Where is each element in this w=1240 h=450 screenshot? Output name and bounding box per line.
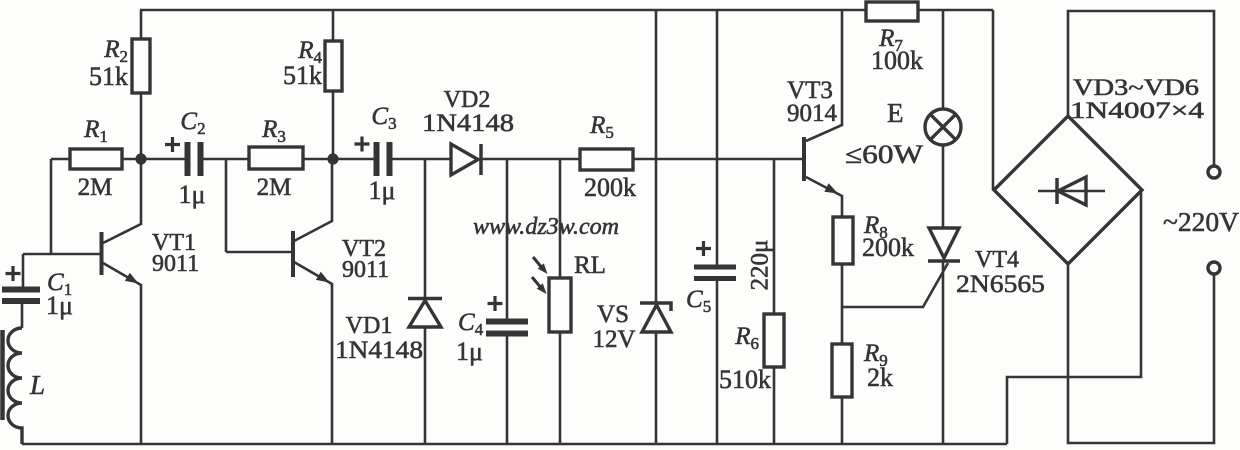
resistor R9 <box>832 340 893 397</box>
resistor R5 <box>580 112 636 202</box>
svg-text:9011: 9011 <box>152 251 199 277</box>
wire: VD1 branch <box>424 159 427 444</box>
svg-text:51k: 51k <box>89 62 128 91</box>
svg-text:C5: C5 <box>686 286 711 316</box>
capacitor C2 <box>165 108 206 209</box>
wire: AC1 loop (bridge top to terminal 1) <box>1068 11 1214 166</box>
svg-text:51k: 51k <box>283 61 322 90</box>
resistor R3 <box>249 116 303 201</box>
svg-text:C3: C3 <box>371 103 396 133</box>
svg-text:200k: 200k <box>862 233 914 262</box>
svg-text:1μ: 1μ <box>179 180 206 209</box>
node B: VT2 collector junction <box>327 153 338 164</box>
node A: VT1 collector junction <box>135 153 146 164</box>
svg-text:12V: 12V <box>592 326 635 353</box>
transistor VT2 <box>293 159 389 444</box>
terminal: AC line top <box>1208 166 1220 178</box>
wire: VT1 base network <box>23 159 100 288</box>
svg-text:~220V: ~220V <box>1163 207 1240 237</box>
svg-text:VS: VS <box>597 301 629 328</box>
thyristor VT4 <box>842 228 1045 444</box>
svg-text:2M: 2M <box>257 174 292 201</box>
wire: C4 branch <box>506 159 509 444</box>
wire: R2 branch vertical <box>140 10 143 159</box>
svg-text:2N6565: 2N6565 <box>956 271 1045 298</box>
wire: bottom ground rail <box>22 443 1007 446</box>
resistor R4 <box>283 37 342 91</box>
svg-text:9014: 9014 <box>787 100 838 127</box>
svg-text:200k: 200k <box>584 173 636 202</box>
wire: C5 branch <box>716 10 719 444</box>
svg-text:100k: 100k <box>871 46 923 75</box>
bridge rectifier VD3~VD6 <box>994 75 1205 264</box>
svg-text:C4: C4 <box>458 309 484 339</box>
wire: VT3 emitter to R8 <box>841 216 844 219</box>
photoresistor RL <box>532 252 606 332</box>
svg-text:220μ: 220μ <box>747 240 774 291</box>
transistor VT1 <box>102 159 200 444</box>
diode VD2 <box>422 87 514 175</box>
wire: VS branch (12V rail zener) <box>655 10 658 444</box>
svg-text:R5: R5 <box>589 112 614 142</box>
svg-text:RL: RL <box>574 252 606 279</box>
resistor R8 <box>833 212 914 264</box>
wire: DC+ rail to bridge left corner <box>992 10 995 190</box>
svg-text:VD3~VD6: VD3~VD6 <box>1073 75 1199 100</box>
capacitor C5 <box>686 240 774 316</box>
wire: bridge bottom to terminal 2 <box>1068 264 1214 443</box>
capacitor C4 <box>456 296 528 366</box>
svg-text:C2: C2 <box>180 108 205 138</box>
svg-text:≤60W: ≤60W <box>845 140 924 169</box>
svg-text:1μ: 1μ <box>46 291 73 320</box>
svg-text:510k: 510k <box>719 365 771 394</box>
lamp E <box>845 98 961 169</box>
wire: R8 to R9 <box>841 264 844 344</box>
svg-text:R3: R3 <box>261 116 286 146</box>
resistor R1 <box>70 116 122 201</box>
wire: DC- return (bridge right corner to ground rail) <box>1007 190 1141 444</box>
svg-text:1μ: 1μ <box>456 337 483 366</box>
wire: R6 branch <box>773 159 776 444</box>
wire: main signal line (VT1 stage to VT3 base) <box>51 158 804 161</box>
svg-text:1N4007×4: 1N4007×4 <box>1070 98 1205 123</box>
svg-text:www.dz3w.com: www.dz3w.com <box>473 214 619 240</box>
zener diode VS <box>592 301 671 353</box>
wire: VT2 base lead <box>226 159 291 252</box>
inductor L <box>3 328 46 444</box>
transistor VT3 <box>787 10 842 217</box>
svg-text:1N4148: 1N4148 <box>335 337 423 364</box>
resistor R2 <box>89 36 150 93</box>
wire: R4 branch vertical <box>332 10 335 159</box>
svg-text:VT4: VT4 <box>975 247 1019 273</box>
svg-text:1N4148: 1N4148 <box>422 110 514 137</box>
svg-text:E: E <box>887 98 904 128</box>
svg-text:VD1: VD1 <box>346 313 393 339</box>
svg-text:R6: R6 <box>734 323 759 353</box>
diode VD1 <box>335 299 442 365</box>
svg-text:R1: R1 <box>83 116 108 146</box>
svg-text:1μ: 1μ <box>369 176 396 205</box>
resistor R6 <box>719 314 784 394</box>
svg-text:9011: 9011 <box>342 257 389 283</box>
terminal: AC line bottom <box>1208 262 1220 274</box>
wire: RL branch <box>559 159 562 444</box>
capacitor C3 <box>355 103 397 205</box>
wire: R9 to ground rail <box>841 397 844 444</box>
svg-text:2k: 2k <box>867 363 893 392</box>
svg-text:2M: 2M <box>78 174 113 201</box>
capacitor C1 <box>2 266 73 320</box>
svg-text:L: L <box>29 370 45 400</box>
wire: top supply rail <box>140 9 993 12</box>
wire: lamp branch <box>942 10 945 228</box>
resistor R7 <box>866 2 923 75</box>
wire: C1 to L <box>21 301 24 328</box>
